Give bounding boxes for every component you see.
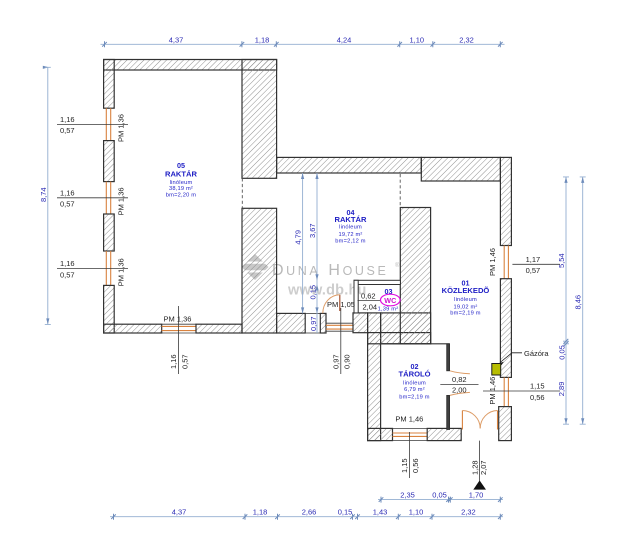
window left W3 xyxy=(106,251,110,285)
svg-text:0,05: 0,05 xyxy=(432,491,447,500)
svg-text:38,19 m²: 38,19 m² xyxy=(169,186,193,192)
room 02 labels xyxy=(398,362,430,401)
svg-text:RAKTÁR: RAKTÁR xyxy=(165,169,198,178)
opening dashed edge room04-corridor xyxy=(399,174,401,208)
bottom window W4 dim xyxy=(164,306,192,374)
left window dim cross 3 xyxy=(57,258,128,286)
svg-text:5,54: 5,54 xyxy=(557,253,566,268)
svg-text:1,16: 1,16 xyxy=(169,354,178,369)
wall column between 05 and 04 lower xyxy=(242,208,277,333)
svg-text:WC: WC xyxy=(384,296,396,305)
gazora meter box xyxy=(492,364,501,376)
svg-text:1,15: 1,15 xyxy=(400,458,409,473)
svg-text:RAKTÁR: RAKTÁR xyxy=(334,215,367,224)
top dimension line xyxy=(101,35,505,47)
window left W1 xyxy=(106,108,110,140)
svg-text:0,57: 0,57 xyxy=(60,200,75,209)
svg-text:PM 1,36: PM 1,36 xyxy=(117,114,126,142)
wall right pier top xyxy=(500,157,511,245)
svg-text:bm=2,19 m: bm=2,19 m xyxy=(399,394,429,400)
door WC arc xyxy=(323,295,340,314)
wall left pier 2 xyxy=(104,141,115,182)
svg-text:4,24: 4,24 xyxy=(337,35,352,44)
svg-text:0,57: 0,57 xyxy=(60,126,75,135)
svg-text:1,16: 1,16 xyxy=(60,259,75,268)
svg-text:linóleum: linóleum xyxy=(403,380,426,386)
svg-text:TÁROLÓ: TÁROLÓ xyxy=(398,370,430,379)
bottom dimension line upper (2,35 0,05 1,70) xyxy=(378,491,503,503)
wall wing left xyxy=(368,313,381,441)
wall tarolo right upper xyxy=(447,344,450,371)
svg-text:4,79: 4,79 xyxy=(294,230,303,245)
svg-text:2,00: 2,00 xyxy=(452,386,467,395)
wall bottom band B right jamb xyxy=(320,313,326,333)
right window W7 dim xyxy=(483,377,560,405)
wall under WC to corridor xyxy=(381,313,431,344)
wall right pier bottom xyxy=(499,407,512,441)
svg-text:19,72 m²: 19,72 m² xyxy=(338,232,362,238)
wall left pier 3 xyxy=(104,214,115,251)
svg-text:1,15: 1,15 xyxy=(530,382,545,391)
tarolo door jamb hooks xyxy=(450,371,470,374)
svg-text:2,32: 2,32 xyxy=(459,35,474,44)
svg-text:0,90: 0,90 xyxy=(343,354,352,369)
door threshold band B lintel line xyxy=(305,313,320,333)
left window dim cross 1 xyxy=(57,114,128,142)
interior dim line 3,67 0,15 0,97 xyxy=(308,173,319,333)
window W5 bottom xyxy=(326,323,353,331)
door entrance double leaf left xyxy=(461,411,463,430)
svg-text:PM 1,36: PM 1,36 xyxy=(117,258,126,286)
wall bottom band A left part xyxy=(104,324,162,333)
svg-text:1,16: 1,16 xyxy=(60,188,75,197)
wall WC left xyxy=(354,280,358,313)
svg-text:PM 1,46: PM 1,46 xyxy=(488,248,497,276)
bottom window W5 dim xyxy=(331,308,351,374)
room 03 WC labels xyxy=(378,287,400,312)
window right W7 xyxy=(504,377,508,406)
svg-text:1,43: 1,43 xyxy=(373,508,388,517)
svg-text:PM 1,46: PM 1,46 xyxy=(488,377,497,405)
door entrance arc left xyxy=(462,411,480,429)
wall top band right wing part2 xyxy=(421,157,500,181)
tarolo window W8 dim xyxy=(395,415,423,479)
entrance dim line xyxy=(479,441,481,481)
svg-text:8,74: 8,74 xyxy=(39,187,48,202)
svg-text:2,66: 2,66 xyxy=(302,508,317,517)
svg-text:0,15: 0,15 xyxy=(309,285,318,300)
wall top of TAROLO xyxy=(368,333,431,344)
opening dashed edge room05-04 xyxy=(241,178,243,208)
svg-text:0,97: 0,97 xyxy=(309,316,318,331)
svg-text:2,89: 2,89 xyxy=(557,382,566,397)
wall WC top xyxy=(354,280,400,284)
svg-text:PM 1,36: PM 1,36 xyxy=(164,315,192,324)
entrance marker triangle xyxy=(473,480,486,489)
svg-text:4,37: 4,37 xyxy=(172,508,187,517)
svg-text:4,37: 4,37 xyxy=(169,35,184,44)
svg-text:DUNA HOUSE: DUNA HOUSE xyxy=(272,262,388,279)
bottom dimension line lower xyxy=(110,508,503,520)
wall tarolo right lower xyxy=(447,395,450,429)
right window W6 dim xyxy=(488,248,560,276)
wall right pier middle xyxy=(500,279,511,378)
wall top of room 05 xyxy=(104,60,277,71)
svg-text:1,16: 1,16 xyxy=(60,115,75,124)
watermark duna house logo diamond xyxy=(242,254,269,280)
svg-text:3,67: 3,67 xyxy=(308,223,317,238)
svg-text:0,57: 0,57 xyxy=(180,354,189,369)
right dimension line 5,54 0,05 2,89 xyxy=(557,177,569,424)
svg-text:1,18: 1,18 xyxy=(253,508,268,517)
svg-text:2,35: 2,35 xyxy=(400,491,415,500)
WC door dim 0,62 2,04 xyxy=(358,291,381,311)
svg-text:2,32: 2,32 xyxy=(461,508,476,517)
svg-text:0,05: 0,05 xyxy=(558,345,567,360)
svg-text:bm=2,19 m: bm=2,19 m xyxy=(450,311,480,317)
wall top band right wing part1 xyxy=(277,157,422,173)
svg-text:1,10: 1,10 xyxy=(409,35,424,44)
door entrance double leaf right xyxy=(497,411,499,430)
svg-text:bm=2,12 m: bm=2,12 m xyxy=(335,239,365,245)
svg-text:linóleum: linóleum xyxy=(454,297,477,303)
left window dim cross 2 xyxy=(57,187,128,215)
window W4 bottom xyxy=(162,324,196,333)
svg-text:KÖZLEKEDÕ: KÖZLEKEDÕ xyxy=(442,286,490,295)
wall bottom wing chunk1 xyxy=(368,428,393,440)
svg-text:0,57: 0,57 xyxy=(60,270,75,279)
svg-text:PM 1,05: PM 1,05 xyxy=(327,300,355,309)
window left W2 xyxy=(106,182,110,214)
svg-text:linóleum: linóleum xyxy=(339,225,362,231)
svg-text:PM 1,36: PM 1,36 xyxy=(117,187,126,215)
svg-text:1,10: 1,10 xyxy=(409,508,424,517)
wall corridor left xyxy=(400,208,430,344)
svg-text:0,97: 0,97 xyxy=(331,354,340,369)
svg-text:0,62: 0,62 xyxy=(361,291,376,300)
room 01 labels xyxy=(442,279,490,317)
svg-text:®: ® xyxy=(395,262,400,269)
svg-text:0,15: 0,15 xyxy=(338,508,353,517)
svg-text:1,18: 1,18 xyxy=(255,35,270,44)
svg-text:0,56: 0,56 xyxy=(530,393,545,402)
right dimension line 8,46 xyxy=(574,177,586,424)
svg-text:0,56: 0,56 xyxy=(411,458,420,473)
window right W6 xyxy=(504,246,508,279)
room 05 labels xyxy=(165,161,198,199)
svg-text:1,39 m²: 1,39 m² xyxy=(378,306,399,312)
wall bottom band A right part xyxy=(196,324,242,333)
wall bottom wing chunk2 xyxy=(427,428,461,440)
svg-text:PM 1,46: PM 1,46 xyxy=(395,415,423,424)
wall under WC xyxy=(353,313,368,333)
svg-text:0,57: 0,57 xyxy=(526,266,541,275)
wall column between 05 and 04 upper xyxy=(242,60,277,179)
interior dim line 4,79 xyxy=(294,173,305,313)
svg-text:1,17: 1,17 xyxy=(526,255,541,264)
svg-text:8,46: 8,46 xyxy=(574,295,583,310)
window W8 tarolo bottom xyxy=(393,428,428,440)
svg-text:6,79 m²: 6,79 m² xyxy=(404,387,425,393)
gazora leader line xyxy=(500,353,522,363)
room 04 labels xyxy=(334,208,367,245)
svg-text:2,04: 2,04 xyxy=(363,303,378,312)
svg-text:2,07: 2,07 xyxy=(479,460,488,475)
door WC leaf xyxy=(339,295,341,311)
svg-text:19,02 m²: 19,02 m² xyxy=(453,304,477,310)
left dimension line 8,74 xyxy=(39,67,51,324)
wall left pier 4 xyxy=(104,285,115,333)
wall bottom band B xyxy=(277,313,306,333)
svg-text:1,70: 1,70 xyxy=(469,491,484,500)
door entrance arc right xyxy=(480,411,497,429)
svg-text:linóleum: linóleum xyxy=(170,180,193,186)
svg-text:0,82: 0,82 xyxy=(452,375,467,384)
tarolo door dim 0,82 2,00 xyxy=(440,375,478,394)
svg-text:Gázóra: Gázóra xyxy=(524,349,549,358)
wall left pier 1 xyxy=(104,60,115,109)
svg-text:bm=2,20 m: bm=2,20 m xyxy=(166,193,196,199)
